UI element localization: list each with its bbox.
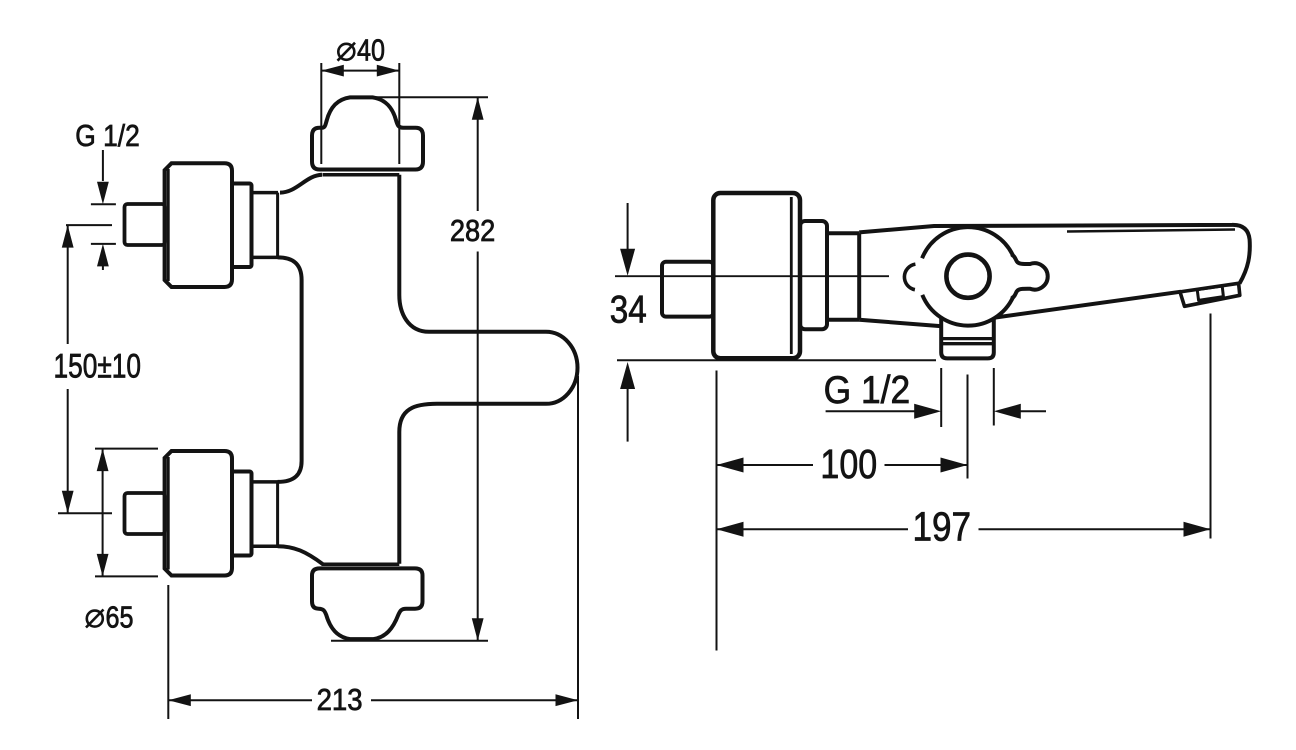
lower boss bottom edge: [252, 544, 279, 548]
upper handle: middle cylinder: [232, 184, 252, 268]
bottom knob (front view, mirrored handle): [312, 568, 423, 639]
step cylinder right edge: [857, 233, 861, 320]
wall flange inner rim line: [790, 197, 793, 354]
body left shoulder fillet (top): [280, 175, 322, 193]
body right profile with upper tongue: [399, 175, 577, 564]
dim 34 lower tail: [627, 389, 629, 442]
dim 197 line left segment: [717, 528, 909, 530]
dim 100 line left segment: [717, 464, 814, 466]
svg-text:197: 197: [913, 504, 972, 550]
valve centerline: [615, 275, 889, 277]
svg-text:34: 34: [610, 289, 647, 332]
dim 282 bottom reference line: [331, 640, 488, 642]
aerator insert: [1197, 286, 1223, 300]
svg-text:213: 213: [317, 682, 363, 717]
step cylinder bottom edge: [827, 318, 859, 322]
dim 213 arrow right: [556, 694, 579, 706]
stub extension line center: [967, 375, 969, 479]
dim ø40 extension line left: [320, 63, 322, 164]
dim ø40 arrow left: [321, 65, 344, 77]
upper handle: large knob ø65: [165, 163, 232, 287]
svg-text:G 1/2: G 1/2: [824, 369, 911, 412]
dim 100 arrow right: [941, 458, 968, 473]
dim 282 top reference line: [370, 96, 488, 98]
dim G1/2 arrow up: [97, 244, 109, 267]
label ø65 symbol: [86, 610, 104, 628]
dim G1/2 tick top: [91, 203, 116, 205]
dim ø65 arrow top: [97, 449, 109, 472]
top control knob (front view, ø40 handle): [312, 97, 423, 169]
dim 197 line right segment: [979, 528, 1211, 530]
top knob skirt line: [323, 173, 400, 177]
shower stub collar line 1: [941, 337, 994, 340]
body left edge between handles: [278, 257, 302, 482]
spout inner top line: [1067, 230, 1235, 232]
dim 34 upper tail: [627, 203, 629, 251]
lower boss right edge: [276, 482, 279, 546]
dim G1/2 lower tail: [102, 265, 104, 270]
dim 197 arrow right: [1184, 522, 1211, 537]
dim ø65 tick top: [95, 448, 158, 450]
flange ring: [800, 221, 827, 329]
svg-text:G 1/2: G 1/2: [75, 118, 140, 153]
dim 213 line left segment: [168, 699, 312, 701]
spout top edge: [859, 225, 1250, 284]
svg-text:282: 282: [450, 213, 496, 248]
dim G1/2 right: left tail: [826, 410, 918, 412]
lower handle: wall spigot G1/2: [125, 493, 166, 534]
spout underside edge: [996, 292, 1182, 318]
body cone bottom edge: [859, 320, 942, 326]
aerator housing: [1180, 283, 1240, 306]
dim G1/2 right: arrow left: [994, 404, 1021, 419]
dim G1/2 tick bottom: [91, 243, 116, 245]
dial hub circle: [946, 255, 989, 298]
dim ø65 tick bottom: [95, 575, 158, 577]
dim 150±10 arrow bottom: [62, 491, 74, 514]
dim 197 extension line left: [716, 371, 718, 651]
lower handle knob left rim line: [167, 457, 170, 570]
svg-text:100: 100: [820, 441, 877, 487]
dial outer circle bottom arc: [922, 295, 1013, 326]
dim G1/2 right: right tail: [1019, 410, 1046, 412]
svg-text:40: 40: [357, 33, 385, 68]
wall inlet nipple G1/2: [662, 262, 713, 317]
wall flange: [713, 193, 800, 358]
dim 100 arrow left: [717, 458, 744, 473]
dim 282 line lower segment: [477, 252, 479, 641]
dim 213 line right segment: [371, 699, 578, 701]
dim ø65 arrow bottom: [97, 554, 109, 577]
dim 213 extension line right: [577, 376, 579, 719]
dim G1/2 right: arrow right: [914, 404, 941, 419]
dim 282 arrow bottom: [472, 618, 484, 641]
shower stub collar line 2: [941, 342, 994, 345]
bottom knob skirt line: [322, 563, 400, 567]
dim 197 extension line right: [1210, 314, 1212, 539]
dim 34 bottom reference line: [617, 359, 936, 361]
dim 150±10 line upper segment: [67, 225, 69, 344]
stub extension line left: [940, 368, 942, 427]
upper boss right edge: [276, 193, 279, 258]
stub extension line right: [993, 368, 995, 426]
lower handle: large knob ø65: [165, 451, 232, 576]
shower outlet stub: [941, 318, 994, 358]
dim 282 arrow top: [472, 97, 484, 120]
dim ø40 arrow right: [377, 65, 400, 77]
dim G1/2 arrow down: [97, 182, 109, 205]
step cylinder top edge: [827, 231, 859, 235]
dim 150±10 line lower segment: [67, 389, 69, 513]
dim 150±10 tick bottom: [58, 512, 112, 514]
dim 150±10 tick top: [66, 224, 112, 226]
dim 34 arrow down: [620, 249, 635, 276]
dim 213 extension line left: [167, 585, 169, 719]
dial outer circle top arc: [922, 227, 1013, 258]
lower handle: middle cylinder: [232, 472, 252, 556]
dim 100 line right segment: [885, 464, 968, 466]
dial grip tab: [1011, 254, 1047, 298]
upper boss top edge: [252, 191, 279, 195]
lower boss top edge: [252, 480, 279, 484]
svg-text:150±10: 150±10: [54, 348, 142, 386]
dim 197 arrow left: [717, 522, 744, 537]
dim 150±10 arrow top: [62, 225, 74, 248]
dim ø40 line: [321, 70, 399, 72]
upper handle: wall spigot G1/2: [125, 204, 166, 245]
upper boss bottom edge: [252, 256, 279, 260]
dim ø40 extension line right: [398, 63, 400, 164]
svg-text:65: 65: [106, 600, 134, 635]
dim 282 line upper segment: [477, 97, 479, 211]
dim 213 arrow left: [168, 694, 191, 706]
dial override button arc: [904, 264, 915, 290]
dim G1/2 leader line: [102, 150, 104, 181]
upper handle knob left rim line: [167, 169, 170, 281]
dim ø65 line: [102, 449, 104, 577]
label ø40 symbol: [338, 43, 356, 61]
body fillet into bottom knob: [278, 546, 323, 564]
dim 34 arrow up: [620, 362, 635, 389]
